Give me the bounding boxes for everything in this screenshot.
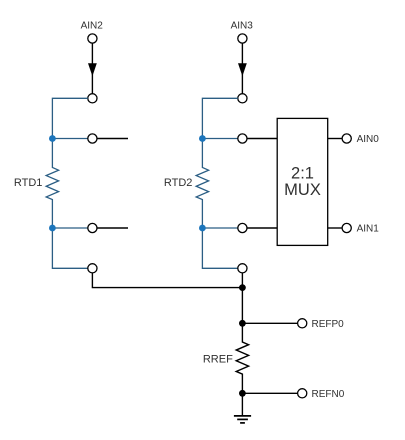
svg-text:AIN3: AIN3 bbox=[231, 21, 254, 32]
svg-text:REFP0: REFP0 bbox=[312, 319, 345, 330]
svg-text:AIN2: AIN2 bbox=[81, 21, 104, 32]
svg-text:REFN0: REFN0 bbox=[312, 389, 345, 400]
svg-text:2:1: 2:1 bbox=[291, 164, 314, 182]
svg-text:MUX: MUX bbox=[284, 181, 321, 199]
svg-text:RTD2: RTD2 bbox=[164, 177, 193, 189]
svg-text:AIN1: AIN1 bbox=[357, 224, 380, 235]
svg-text:AIN0: AIN0 bbox=[357, 134, 380, 145]
svg-text:RTD1: RTD1 bbox=[14, 177, 43, 189]
svg-text:RREF: RREF bbox=[203, 354, 233, 366]
